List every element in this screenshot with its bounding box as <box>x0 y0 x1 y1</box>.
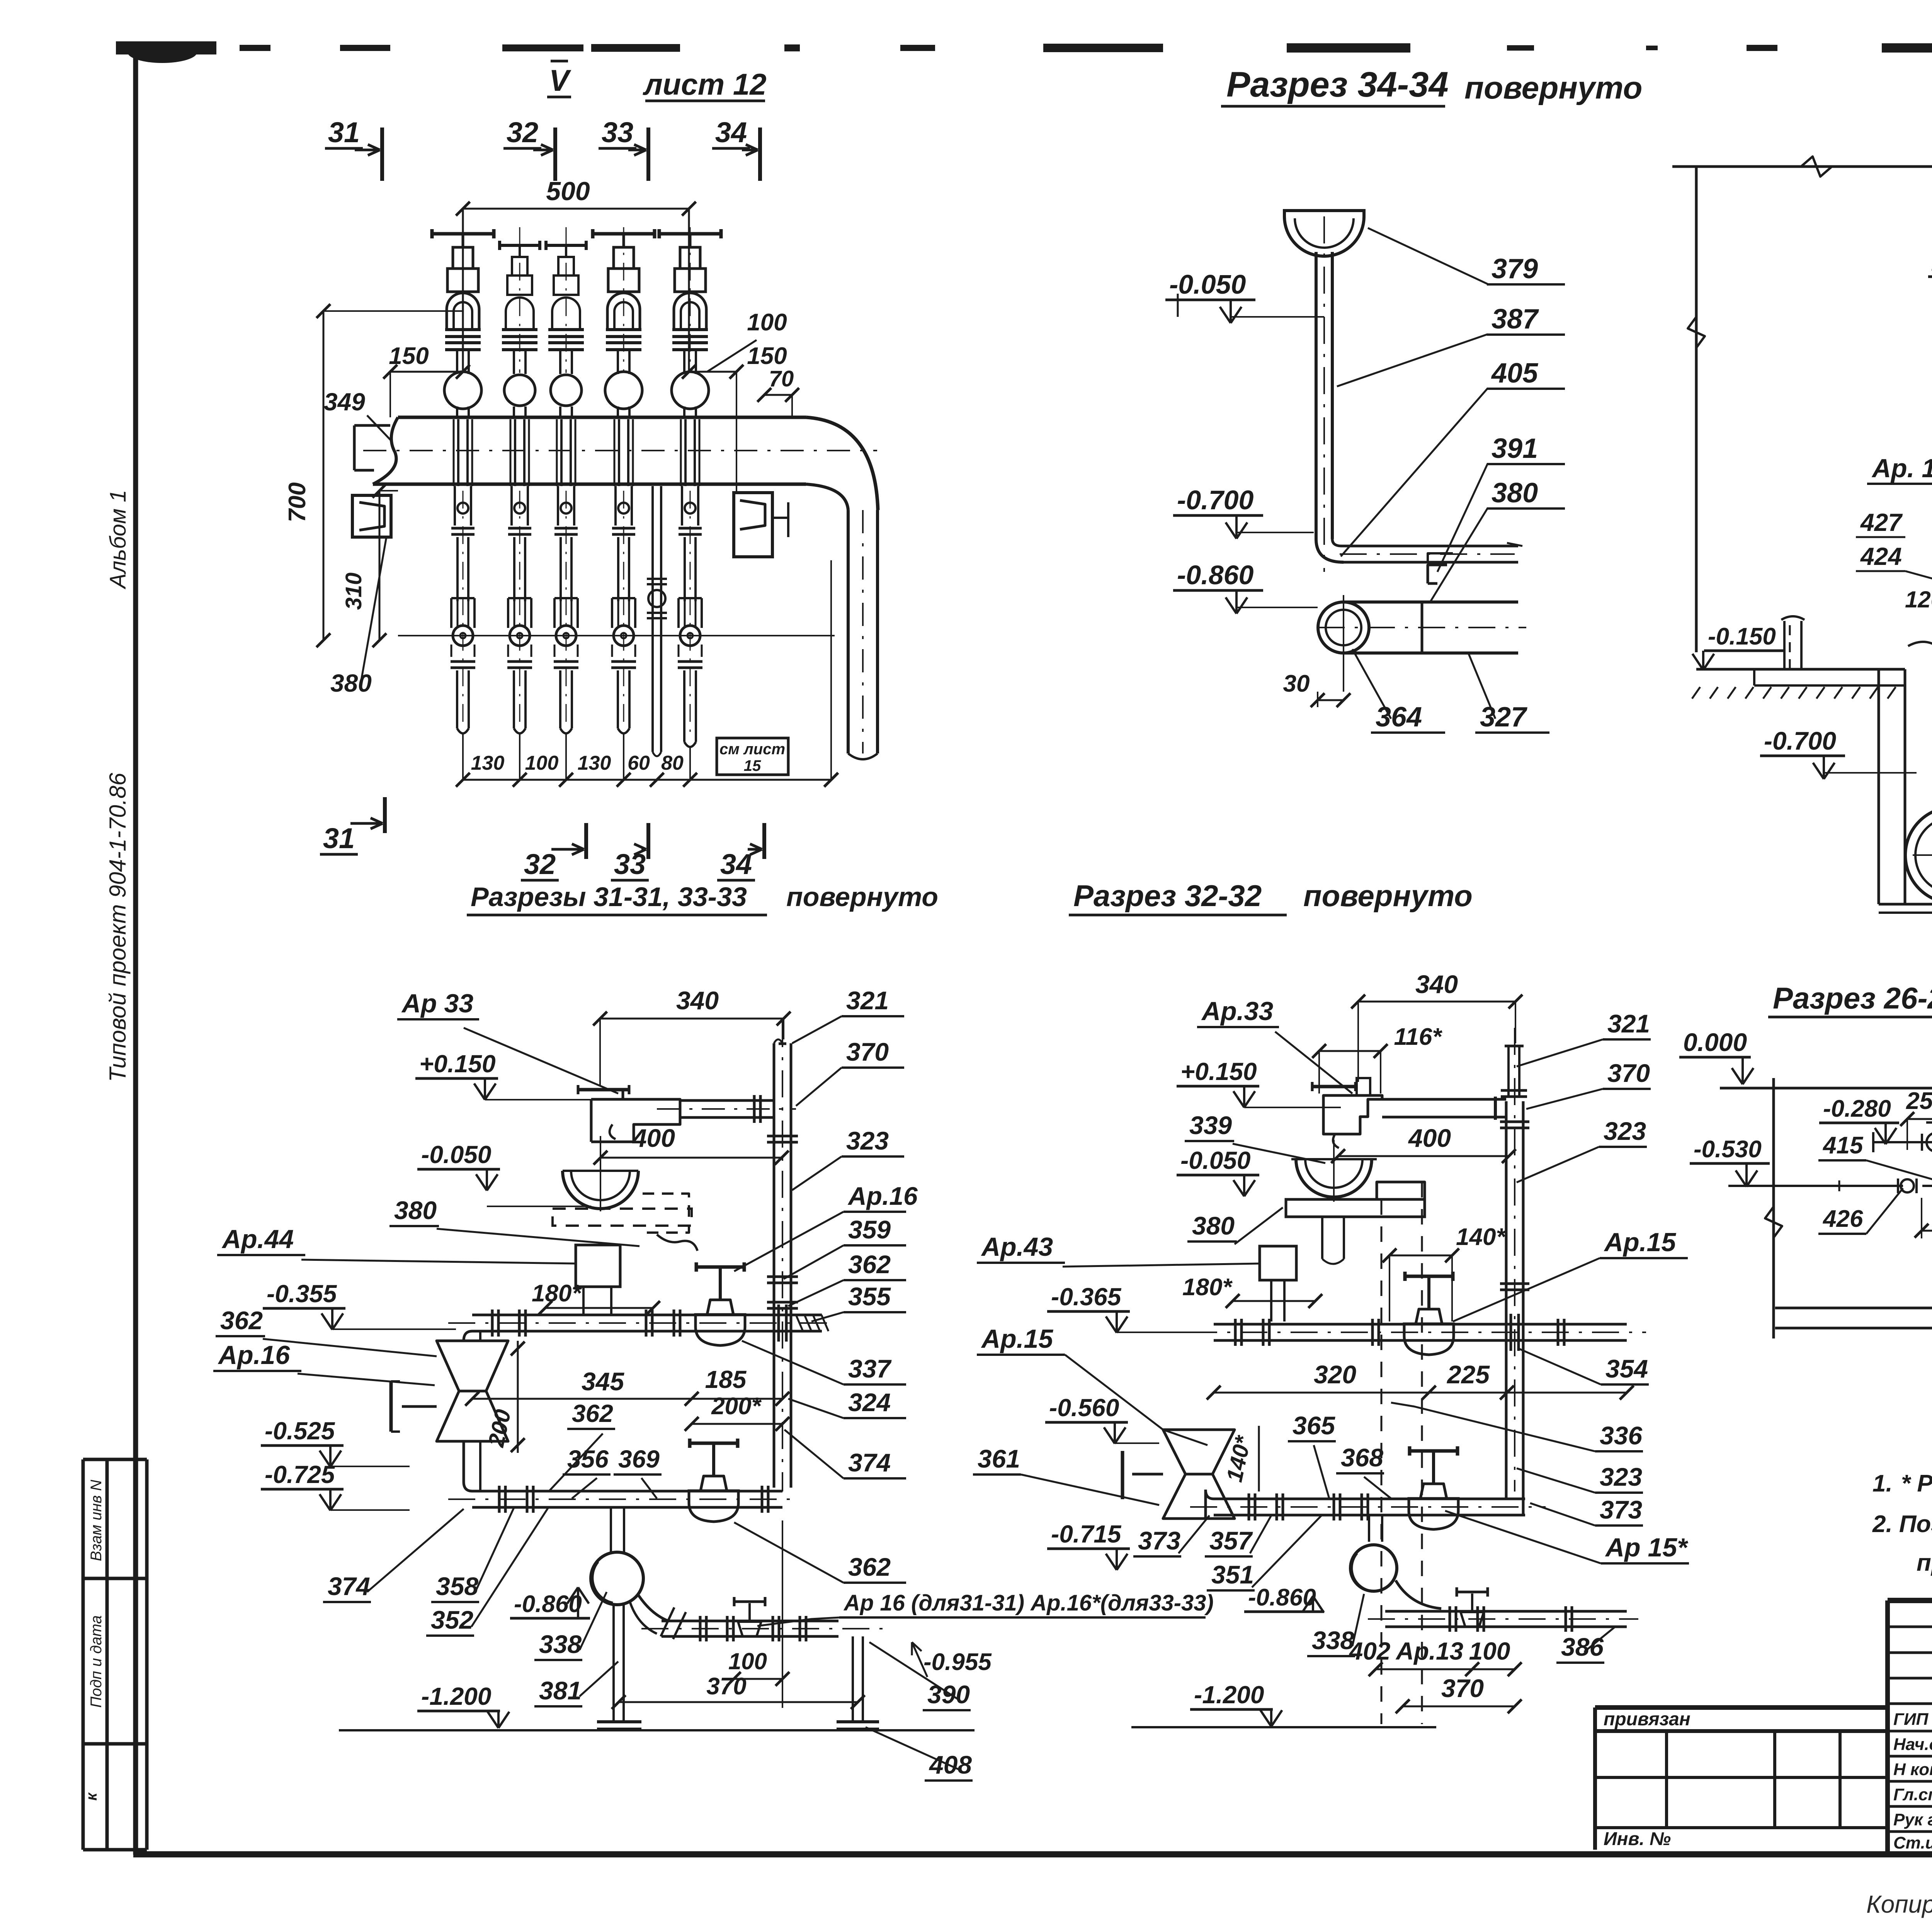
svg-text:-0.725: -0.725 <box>265 1461 335 1488</box>
svg-text:324: 324 <box>848 1388 891 1417</box>
svg-text:323: 323 <box>846 1126 889 1155</box>
svg-text:359: 359 <box>848 1215 891 1244</box>
svg-text:364: 364 <box>1376 702 1422 733</box>
svg-text:100: 100 <box>728 1648 767 1674</box>
svg-text:33: 33 <box>602 116 633 148</box>
svg-text:* Размеры для справок: * Размеры для справок <box>1901 1470 1932 1497</box>
svg-text:Ар 15*: Ар 15* <box>1605 1533 1689 1562</box>
svg-text:Ар.43: Ар.43 <box>981 1232 1053 1262</box>
svg-text:500: 500 <box>546 177 590 206</box>
svg-text:Ар.13: Ар.13 <box>1395 1637 1463 1665</box>
svg-text:Ар.15: Ар.15 <box>1604 1228 1676 1257</box>
svg-text:352: 352 <box>431 1605 473 1634</box>
svg-text:Разрез 34-34: Разрез 34-34 <box>1226 65 1449 104</box>
svg-text:358: 358 <box>436 1572 478 1600</box>
svg-text:Инв. №: Инв. № <box>1604 1829 1671 1849</box>
svg-text:Ар.44: Ар.44 <box>221 1225 294 1254</box>
svg-text:60: 60 <box>628 752 650 774</box>
svg-text:Ар 16 (для31-31) Ар.16*(для33-: Ар 16 (для31-31) Ар.16*(для33-33) <box>843 1590 1214 1616</box>
svg-text:351: 351 <box>1211 1560 1254 1589</box>
svg-text:140*: 140* <box>1456 1224 1506 1250</box>
svg-text:Ар.16: Ар.16 <box>218 1340 290 1370</box>
svg-text:130: 130 <box>471 752 505 774</box>
svg-text:130: 130 <box>578 752 611 774</box>
svg-text:370: 370 <box>706 1673 746 1700</box>
svg-text:32: 32 <box>524 848 556 880</box>
svg-text:373: 373 <box>1138 1526 1180 1555</box>
svg-text:369: 369 <box>618 1445 660 1473</box>
svg-text:-0.860: -0.860 <box>1177 560 1254 590</box>
svg-text:31: 31 <box>323 822 355 854</box>
svg-text:380: 380 <box>1192 1211 1235 1240</box>
svg-text:повернуто: повернуто <box>1464 70 1642 105</box>
svg-text:31: 31 <box>328 116 360 148</box>
svg-text:к: к <box>83 1792 100 1801</box>
svg-text:-1.200: -1.200 <box>421 1682 491 1710</box>
svg-text:см лист: см лист <box>719 741 785 758</box>
svg-text:380: 380 <box>330 669 372 697</box>
svg-text:Гл.спец: Гл.спец <box>1893 1785 1932 1804</box>
svg-text:0.000: 0.000 <box>1683 1028 1747 1056</box>
svg-text:320: 320 <box>1314 1360 1356 1389</box>
svg-text:400: 400 <box>632 1124 675 1152</box>
svg-text:Н контр: Н контр <box>1893 1760 1932 1779</box>
svg-text:185: 185 <box>705 1366 747 1393</box>
svg-text:321: 321 <box>846 986 889 1015</box>
svg-text:100: 100 <box>525 752 559 774</box>
svg-text:379: 379 <box>1492 253 1538 284</box>
svg-text:116*: 116* <box>1394 1024 1443 1050</box>
svg-text:338: 338 <box>539 1630 582 1658</box>
svg-text:+0.150: +0.150 <box>419 1050 496 1078</box>
svg-text:355: 355 <box>848 1282 891 1311</box>
svg-text:+0.150: +0.150 <box>1180 1058 1257 1085</box>
svg-text:Ар.33: Ар.33 <box>1201 997 1273 1026</box>
svg-text:повернуто: повернуто <box>1303 879 1473 913</box>
svg-text:310: 310 <box>341 573 366 610</box>
svg-text:700: 700 <box>284 482 311 522</box>
svg-text:Ар.15: Ар.15 <box>981 1324 1053 1354</box>
svg-text:-0.530: -0.530 <box>1694 1136 1762 1163</box>
svg-text:338: 338 <box>1312 1626 1354 1655</box>
svg-text:381: 381 <box>539 1676 582 1705</box>
svg-text:34: 34 <box>715 116 747 148</box>
svg-text:-0.860: -0.860 <box>514 1591 582 1617</box>
svg-text:336: 336 <box>1600 1421 1643 1450</box>
svg-text:Ар. 14: Ар. 14 <box>1871 454 1932 483</box>
svg-text:354: 354 <box>1605 1354 1648 1383</box>
svg-text:30: 30 <box>1283 670 1310 697</box>
svg-text:Типовой проект 904-1-70.86: Типовой проект 904-1-70.86 <box>105 772 131 1082</box>
svg-text:340: 340 <box>676 986 719 1015</box>
svg-text:327: 327 <box>1480 702 1527 733</box>
svg-text:362: 362 <box>848 1250 891 1279</box>
svg-text:180*: 180* <box>1182 1274 1233 1301</box>
svg-text:402: 402 <box>1349 1637 1391 1665</box>
svg-text:-0.700: -0.700 <box>1177 485 1254 515</box>
svg-text:374: 374 <box>328 1572 370 1600</box>
svg-text:Ар 33: Ар 33 <box>401 989 473 1018</box>
svg-text:-0.700: -0.700 <box>1764 726 1836 755</box>
svg-text:362: 362 <box>572 1400 613 1427</box>
svg-text:200*: 200* <box>711 1393 762 1420</box>
svg-text:лист 12: лист 12 <box>642 67 766 101</box>
svg-text:Рук гр: Рук гр <box>1893 1810 1932 1829</box>
svg-text:340: 340 <box>1415 970 1458 998</box>
svg-text:415: 415 <box>1822 1132 1864 1159</box>
svg-text:370: 370 <box>1441 1674 1484 1702</box>
svg-text:100: 100 <box>747 309 787 336</box>
svg-text:-0.365: -0.365 <box>1051 1283 1122 1311</box>
svg-text:405: 405 <box>1491 358 1538 389</box>
svg-text:370: 370 <box>1607 1059 1650 1087</box>
svg-text:32: 32 <box>507 116 538 148</box>
svg-text:-0.150: -0.150 <box>1708 623 1776 650</box>
svg-text:361: 361 <box>978 1444 1020 1473</box>
svg-text:Нач.отд: Нач.отд <box>1893 1735 1932 1754</box>
svg-text:386: 386 <box>1561 1633 1604 1661</box>
svg-text:339: 339 <box>1189 1111 1232 1139</box>
svg-text:150: 150 <box>747 343 787 369</box>
svg-text:15: 15 <box>744 757 761 774</box>
svg-text:V: V <box>549 63 571 97</box>
svg-text:34: 34 <box>720 848 752 880</box>
svg-text:Разрез 32-32: Разрез 32-32 <box>1073 879 1262 913</box>
svg-text:391: 391 <box>1492 433 1538 464</box>
svg-text:Копировал Терехова: Копировал Терехова <box>1866 1890 1932 1918</box>
svg-text:374: 374 <box>848 1448 891 1477</box>
svg-text:362: 362 <box>220 1306 263 1335</box>
svg-text:349: 349 <box>324 388 365 416</box>
svg-text:70: 70 <box>769 366 794 391</box>
svg-text:250: 250 <box>1906 1088 1932 1114</box>
svg-text:-0.715: -0.715 <box>1051 1520 1122 1548</box>
svg-text:-1.200: -1.200 <box>1194 1681 1264 1709</box>
svg-text:-0.050: -0.050 <box>421 1141 491 1168</box>
svg-text:2. Позиции, обозначенные*, по: 2. Позиции, обозначенные*, поставляются … <box>1872 1511 1932 1537</box>
svg-text:Разрез 26-26: Разрез 26-26 <box>1773 981 1932 1015</box>
svg-text:-0.525: -0.525 <box>265 1417 335 1445</box>
svg-text:337: 337 <box>848 1354 892 1383</box>
svg-text:-0.280: -0.280 <box>1823 1095 1891 1122</box>
svg-text:-0.955: -0.955 <box>923 1649 992 1675</box>
svg-text:120°: 120° <box>1905 587 1932 612</box>
svg-text:426: 426 <box>1822 1206 1863 1232</box>
svg-text:80: 80 <box>661 752 684 774</box>
svg-text:373: 373 <box>1600 1495 1642 1524</box>
svg-text:368: 368 <box>1341 1443 1383 1472</box>
svg-text:380: 380 <box>1492 478 1538 509</box>
svg-text:100: 100 <box>1469 1637 1510 1665</box>
svg-text:Ст.инж: Ст.инж <box>1893 1833 1932 1852</box>
svg-text:380: 380 <box>394 1196 437 1225</box>
svg-text:-0.560: -0.560 <box>1049 1394 1119 1422</box>
svg-text:1.: 1. <box>1872 1470 1893 1497</box>
svg-text:387: 387 <box>1492 304 1539 335</box>
svg-text:Взам инв N: Взам инв N <box>88 1480 105 1561</box>
svg-text:Подп и дата: Подп и дата <box>88 1615 105 1708</box>
svg-text:370: 370 <box>846 1037 889 1066</box>
svg-text:180*: 180* <box>532 1280 582 1307</box>
svg-text:Разрезы 31-31, 33-33: Разрезы 31-31, 33-33 <box>471 882 747 912</box>
svg-text:365: 365 <box>1293 1411 1335 1440</box>
svg-text:-0.050: -0.050 <box>1169 269 1246 299</box>
svg-text:345: 345 <box>582 1367 624 1396</box>
svg-text:-0.355: -0.355 <box>267 1280 337 1308</box>
svg-text:ГИП: ГИП <box>1893 1710 1929 1729</box>
svg-text:362: 362 <box>848 1553 891 1581</box>
svg-text:323: 323 <box>1600 1463 1642 1491</box>
svg-text:-0.050: -0.050 <box>1180 1146 1250 1174</box>
svg-text:Ар.16: Ар.16 <box>847 1182 918 1210</box>
svg-text:356: 356 <box>567 1445 609 1473</box>
svg-text:привязан: привязан <box>1604 1709 1690 1730</box>
svg-text:400: 400 <box>1408 1124 1451 1152</box>
svg-text:повернуто: повернуто <box>786 882 938 912</box>
svg-text:357: 357 <box>1209 1526 1253 1555</box>
svg-text:323: 323 <box>1604 1117 1646 1145</box>
svg-text:прессорным заводом: прессорным заводом <box>1917 1549 1932 1576</box>
svg-text:225: 225 <box>1446 1360 1490 1389</box>
svg-text:424: 424 <box>1860 543 1902 570</box>
svg-text:427: 427 <box>1860 509 1903 536</box>
svg-text:Альбом 1: Альбом 1 <box>105 490 131 590</box>
svg-text:321: 321 <box>1607 1009 1650 1038</box>
